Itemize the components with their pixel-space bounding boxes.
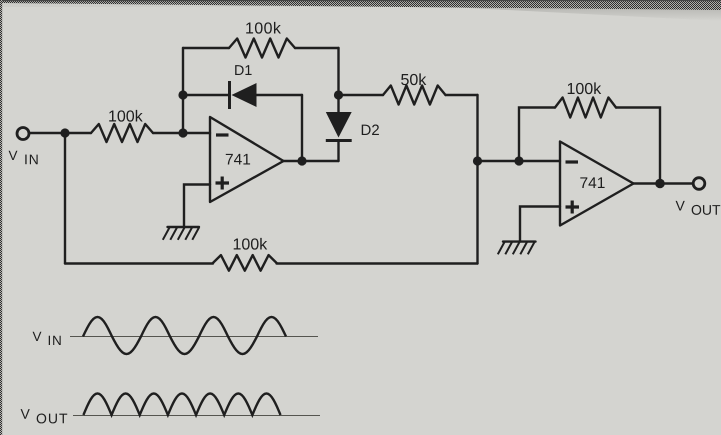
- label R5 100k: [568, 82, 602, 94]
- resistor R2 100k top feedback: [183, 47, 229, 49]
- wire opamp1 output: [284, 160, 339, 162]
- node VIN branch: [60, 128, 69, 137]
- label R4 100k: [234, 238, 268, 250]
- label D2: [362, 125, 379, 135]
- ground 2: [503, 240, 536, 242]
- wire top feedback down to D2 anode: [337, 48, 339, 95]
- resistor R1 100k: [91, 124, 153, 142]
- label U1 741: [226, 154, 250, 165]
- wire D1 cathode down to opamp1 output: [301, 95, 303, 161]
- terminal VIN: [17, 128, 29, 140]
- label D1: [235, 65, 251, 75]
- node feedback2 tap: [514, 156, 523, 165]
- wire VIN to R1: [30, 132, 91, 134]
- node opamp1 output: [297, 156, 306, 165]
- op-amp U1 741: [210, 117, 284, 202]
- node inverting input: [178, 128, 187, 137]
- node opamp2 output: [655, 179, 665, 189]
- wire R1 to opamp1 inverting input: [153, 132, 210, 134]
- page top shadow: [430, 3, 721, 21]
- wire 50k down to opamp2 input net: [476, 95, 478, 161]
- node D1 anode tap: [178, 90, 187, 99]
- label waveform VIN: [33, 332, 42, 341]
- waveform VIN sine: [83, 317, 286, 354]
- label VIN: [9, 151, 18, 160]
- node D2 anode: [334, 90, 343, 99]
- page left edge strip: [0, 0, 2, 435]
- label waveform VOUT: [21, 409, 30, 419]
- resistor R5 100k feedback2: [519, 108, 555, 162]
- wire input net down to bottom feedback: [476, 161, 478, 264]
- op-amp U2 741: [560, 142, 634, 226]
- wire opamp1 noninverting to ground: [184, 185, 210, 227]
- wire opamp2 output: [634, 182, 693, 184]
- ground 1: [168, 226, 200, 228]
- diode D1: [183, 94, 230, 96]
- label VOUT: [676, 201, 685, 211]
- waveform VIN axis: [70, 336, 318, 338]
- node opamp2 input net: [473, 156, 482, 165]
- waveform VOUT humps: [83, 394, 280, 416]
- terminal VOUT: [693, 178, 705, 190]
- wire opamp2 noninverting to ground: [520, 207, 560, 242]
- label U2 741: [580, 177, 604, 188]
- wire to opamp2 inverting input: [478, 160, 561, 162]
- resistor R4 100k bottom feedback: [65, 262, 213, 264]
- label R3 50k: [401, 73, 426, 85]
- label R2 100k: [246, 22, 281, 34]
- waveform VOUT axis: [73, 415, 320, 417]
- page top edge bar: [0, 0, 721, 10]
- wire inverting node up to feedback: [182, 48, 184, 133]
- resistor R3 50k: [339, 94, 384, 96]
- label R1 100k: [109, 110, 143, 122]
- diode D2: [337, 95, 339, 112]
- wire VIN node down to bottom feedback: [64, 133, 66, 264]
